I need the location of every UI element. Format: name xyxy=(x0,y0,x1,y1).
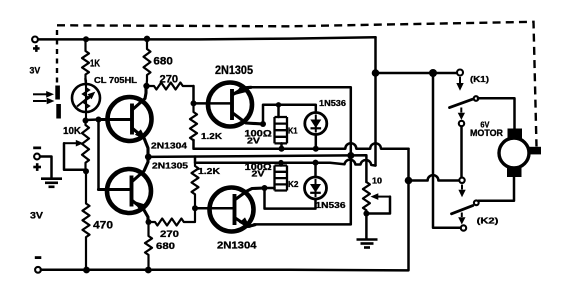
svg-text:2N1305: 2N1305 xyxy=(215,65,254,77)
node: 680 bottom xyxy=(145,267,152,274)
node: K1 coil bottom xyxy=(279,146,285,152)
wire: center tap to ground xyxy=(40,157,51,179)
terminal: battery + top-left xyxy=(32,37,38,43)
svg-text:10: 10 xyxy=(372,176,383,185)
terminal: battery center tap xyxy=(34,154,40,160)
resistor 1K xyxy=(82,42,89,79)
transistor Q2 2N1305 lower-left xyxy=(99,157,152,222)
wire: base lead lower-right xyxy=(195,207,235,210)
node: wire B / right vertical junction xyxy=(347,152,354,159)
node: 1K top junction xyxy=(83,36,89,42)
wire: top positive rail xyxy=(38,37,375,39)
node: rheostat bottom xyxy=(363,211,369,217)
node: lower collector junction xyxy=(262,185,268,191)
svg-text:MOTOR: MOTOR xyxy=(470,128,504,138)
label: minus center xyxy=(33,147,41,150)
resistor 680 upper xyxy=(144,39,151,86)
ground (left) xyxy=(41,179,62,187)
node: upper base node xyxy=(191,100,197,106)
node: top rail corner tee xyxy=(372,69,380,77)
node: K2 coil top tap xyxy=(278,160,283,165)
resistor 680 lower xyxy=(145,222,152,270)
label: plus center xyxy=(33,163,41,171)
svg-text:10K: 10K xyxy=(63,126,82,137)
resistor 1.2K lower xyxy=(192,163,199,209)
transistor Q4 2N1304 lower-right xyxy=(210,188,265,232)
svg-text:1.2K: 1.2K xyxy=(201,132,222,141)
node: lower emitter junction xyxy=(146,219,152,225)
wire: rheostat to ground xyxy=(365,214,368,240)
wire: K1 pivot to motor top xyxy=(478,98,515,128)
svg-text:270: 270 xyxy=(160,73,179,85)
svg-text:3V: 3V xyxy=(30,65,41,75)
photocell CL705HL xyxy=(72,79,100,121)
svg-text:680: 680 xyxy=(156,241,175,251)
node: base rail tee xyxy=(96,117,102,123)
wire: motor bottom to K2 pivot xyxy=(479,177,515,201)
svg-text:2V: 2V xyxy=(252,170,266,179)
label: minus bottom xyxy=(35,256,42,259)
node: D2 top xyxy=(313,160,319,166)
relay coil K1 xyxy=(275,105,288,149)
svg-text:270: 270 xyxy=(160,229,179,239)
wire A: negative bus xyxy=(194,140,409,149)
wire: upper emitter to vertical and down to lower emitter xyxy=(249,87,351,224)
wire: base lead upper-right xyxy=(194,102,233,105)
light arrows xyxy=(33,91,55,104)
svg-text:K2: K2 xyxy=(288,179,299,189)
svg-text:K1: K1 xyxy=(288,126,298,136)
node: wire B left junction xyxy=(145,154,152,161)
node: D1 bottom xyxy=(313,146,319,152)
node: K1 feed / left vertical xyxy=(429,69,437,77)
resistor 270 upper xyxy=(147,83,194,90)
motor M 6V xyxy=(499,129,541,178)
node: upper collector junction xyxy=(260,121,266,127)
svg-text:1.2K: 1.2K xyxy=(198,167,220,176)
wire C: positive bus to relays xyxy=(195,157,376,166)
node: lower base node xyxy=(192,205,198,211)
label: + xyxy=(33,45,40,52)
svg-text:(K2): (K2) xyxy=(477,217,499,226)
svg-text:CL 705HL: CL 705HL xyxy=(94,75,137,85)
ground (right) xyxy=(357,240,378,248)
node: 680 top junction xyxy=(144,36,150,42)
svg-text:3V: 3V xyxy=(30,210,44,221)
wire: left contact vertical to K2 bottom contact xyxy=(433,73,460,228)
wire: right vertical from top rail down to wire C xyxy=(374,37,377,165)
node: photocell bottom junction xyxy=(83,118,89,124)
wire B: emitter bus xyxy=(148,155,366,182)
wire: base rail vertical xyxy=(97,120,100,190)
rheostat 10 ohm xyxy=(363,182,390,214)
resistor 1.2K upper xyxy=(190,103,197,141)
wire: lower collector route to diode bottom xyxy=(265,188,316,209)
wire: collector to K2 coil bottom xyxy=(265,187,275,190)
dashed light path left xyxy=(56,30,58,84)
diode D1 1N536 xyxy=(305,113,327,149)
resistor 270 lower xyxy=(149,208,196,225)
svg-text:1N536: 1N536 xyxy=(319,98,346,108)
wire: to base rail xyxy=(86,118,99,121)
light slit bars xyxy=(55,86,60,100)
wire: to K2 top contact with hop xyxy=(409,175,459,180)
svg-text:(K1): (K1) xyxy=(470,75,489,84)
node: pot bottom junction xyxy=(83,168,89,174)
wire: upper collector route to diode xyxy=(263,105,316,124)
wire: K1 contact feed xyxy=(376,72,457,75)
dashed mechanical link xyxy=(57,22,537,147)
node: wire A tee to K2 contact xyxy=(405,177,413,185)
relay coil K2 xyxy=(275,163,288,191)
potentiometer 10K xyxy=(64,121,89,172)
diode D2 1N536 xyxy=(305,163,327,199)
node: K1 coil top tap xyxy=(276,102,281,107)
svg-text:680: 680 xyxy=(153,55,172,67)
transistor Q1 2N1304 upper-left xyxy=(99,86,152,157)
svg-text:470: 470 xyxy=(93,220,113,232)
svg-text:2N1305: 2N1305 xyxy=(152,160,188,170)
node: 680/270 junction xyxy=(143,83,149,89)
svg-text:2N1304: 2N1304 xyxy=(217,239,257,251)
relay contact K2 xyxy=(452,178,479,231)
wire: K1 bottom contact to K2 top contact xyxy=(460,127,463,177)
svg-text:2N1304: 2N1304 xyxy=(151,140,187,150)
svg-text:1K: 1K xyxy=(90,59,101,70)
wire: 270 to base node xyxy=(192,86,195,103)
node: 470 bottom xyxy=(83,267,90,274)
svg-text:2V: 2V xyxy=(247,136,261,145)
terminal: battery - bottom-left xyxy=(35,267,41,273)
wire: bottom rail and right vertical xyxy=(41,149,409,271)
transistor Q3 2N1305 upper-right xyxy=(208,83,263,127)
resistor 470 xyxy=(83,171,90,269)
svg-text:1N536: 1N536 xyxy=(316,200,346,210)
relay contact K1 xyxy=(450,70,479,127)
